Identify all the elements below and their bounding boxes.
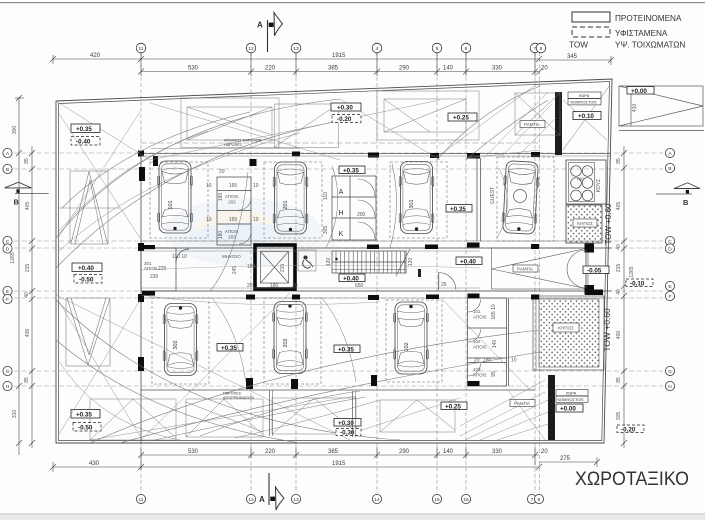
disabled wc box [298,250,316,271]
stub bottom corridor right [371,375,377,386]
vertical grid dashed lines [141,52,540,493]
car 302 [163,304,198,376]
extra diagonal bottom right [508,390,545,440]
svg-text:1265: 1265 [629,266,635,277]
storage block ApOTH 202/203 [217,177,251,245]
svg-text:101: 101 [168,200,174,209]
svg-text:G: G [668,369,672,375]
svg-text:420: 420 [90,53,101,59]
corridor arc lower bay1 [212,298,246,382]
svg-text:200: 200 [357,212,366,218]
elev box +0.30 [331,103,361,111]
svg-text:ΚΟΜΠΟΣΤΟΠ.: ΚΟΜΠΟΣΤΟΠ. [571,100,598,105]
svg-text:ΑΡΙΘΜΟΣ ΠΑΡΟΧΩΝ: ΑΡΙΘΜΟΣ ΠΑΡΟΧΩΝ [224,139,262,143]
parking bay 201 dashed [264,162,322,238]
svg-text:140: 140 [443,449,454,455]
svg-text:+0.25: +0.25 [453,115,469,122]
svg-text:10: 10 [206,217,212,223]
svg-text:1915: 1915 [332,461,346,467]
svg-text:6: 6 [465,46,468,52]
svg-text:20: 20 [541,66,548,72]
car 301 [399,162,434,234]
stub room301 top [142,245,155,249]
svg-text:330: 330 [492,66,503,72]
top grid bubbles [136,43,546,53]
guest bay arc [497,168,508,238]
svg-text:7: 7 [534,46,537,52]
compost boxes top [568,92,601,98]
svg-text:8: 8 [540,46,543,52]
svg-text:10: 10 [511,358,517,364]
neighbour building top right [619,86,704,131]
elev box +0.00 bottom [556,404,583,412]
wall row C top corridor [141,247,612,249]
svg-text:165: 165 [229,183,238,189]
svg-text:+0.35: +0.35 [338,346,354,353]
svg-text:385: 385 [328,66,339,72]
corridor arc lower bay2 [322,298,356,382]
svg-text:95: 95 [491,371,497,377]
elev box +0.25 top [448,113,477,121]
driveway arc bottom 2 [120,352,540,443]
compost boxes bottom [556,390,588,396]
svg-text:ΑΠΟΘ.: ΑΠΟΘ. [473,345,488,350]
driveway arc bottom 6 [150,397,365,441]
svg-text:G: G [6,369,10,375]
parking bay 301 dashed [390,162,447,238]
elev box +0.35 bottom left [71,410,100,419]
svg-text:85: 85 [616,377,622,383]
column stubs row CD [138,243,539,251]
svg-text:11: 11 [139,46,144,52]
svg-text:+0.35: +0.35 [343,167,359,174]
elev box +0.25 bottom [441,402,467,410]
svg-text:245: 245 [232,266,238,275]
left parking rect bottom [66,298,110,366]
svg-text:ΧΩΡΑ: ΧΩΡΑ [566,390,577,395]
extra sweep arc top left a [58,131,208,232]
bottom band hatch rect 3 [272,398,356,434]
svg-text:ΑΠΟΘ.: ΑΠΟΘ. [473,315,488,320]
svg-text:D: D [668,247,672,253]
svg-text:ΑΠΟΘ.: ΑΠΟΘ. [473,373,488,378]
svg-text:20: 20 [219,169,225,175]
svg-text:+0.30: +0.30 [337,105,353,112]
ramp label top [520,121,545,128]
svg-text:H: H [668,384,672,390]
svg-text:ΥΨ. ΤΟΙΧΩΜΑΤΩΝ: ΥΨ. ΤΟΙΧΩΜΑΤΩΝ [615,41,685,50]
svg-text:40: 40 [616,289,622,295]
svg-text:ΚΗΠΟΣ: ΚΗΠΟΣ [577,221,593,226]
stub room301 bottom [142,291,155,296]
svg-text:530: 530 [188,449,199,455]
extra sweep arc mid corridor [141,265,480,270]
svg-text:Α: Α [339,189,344,196]
stairs [332,251,406,273]
svg-text:220: 220 [265,66,276,72]
svg-text:345: 345 [567,54,578,60]
svg-text:+0.00: +0.00 [631,88,647,95]
svg-text:8: 8 [538,497,541,503]
disabled wc symbol [303,256,313,268]
long diagonals existing top [56,84,540,160]
elev box -0.20 dashed [332,115,361,123]
elev box -0.05 [583,266,609,274]
410 dim right top [630,86,632,126]
driveway arc bottom 4 [56,340,300,443]
elev box +0.35 bay302 [217,344,243,352]
svg-text:-0.05: -0.05 [587,267,602,274]
svg-text:180: 180 [247,264,256,270]
svg-text:ΧΩΡΑ: ΧΩΡΑ [579,93,590,98]
svg-text:405: 405 [25,202,31,211]
svg-text:+0.30: +0.30 [338,420,354,427]
svg-text:A: A [259,495,265,504]
svg-text:+0.40: +0.40 [78,265,94,272]
svg-text:85: 85 [24,158,30,164]
driveway arc top 2 [56,120,345,268]
horizontal row dashed lines [14,153,663,386]
svg-text:110: 110 [323,192,329,200]
AHK closets [332,176,376,240]
svg-text:202: 202 [228,200,236,205]
elev box -0.20 dashed bottom right [617,425,644,433]
svg-text:40: 40 [616,244,622,250]
driveway arc top 1 [56,99,340,238]
svg-text:275: 275 [560,456,571,462]
storage door arc 203 [239,232,251,244]
elev box +0.00 top right [627,87,654,95]
stove burners [571,166,593,201]
ramp label bottom [510,400,535,407]
column stubs row A [138,151,540,167]
svg-text:330: 330 [492,449,503,455]
svg-text:ΡΑΜΠΑ: ΡΑΜΠΑ [524,122,540,127]
door arc corridor [439,273,456,290]
svg-text:410: 410 [632,104,638,113]
elev box +0.30 bottom [334,419,361,427]
svg-text:13: 13 [293,497,299,503]
svg-text:TOW: TOW [569,41,588,50]
driveway arc top right [437,86,540,160]
svg-text:-0.20: -0.20 [621,426,636,433]
svg-text:+0.00: +0.00 [560,406,576,413]
car 201 [273,162,308,234]
svg-text:Τ60: Τ60 [576,177,584,182]
svg-text:+0.35: +0.35 [450,206,466,213]
svg-text:+0.35: +0.35 [76,126,92,133]
right grid bubbles [665,148,674,390]
car 202 [273,302,308,374]
svg-text:290: 290 [399,66,410,72]
stove block [566,160,606,204]
svg-text:405: 405 [25,329,31,338]
svg-text:C: C [6,239,10,245]
top edge line [0,2,705,3]
section marker B right [674,183,700,189]
elev box +0.40 left mid [72,263,102,272]
long diagonals existing bottom [56,293,545,440]
wall row A [141,153,610,155]
elev box +0.35 stairs top [339,166,365,174]
elev box +0.40 stairs bottom [339,274,365,282]
column stub guest bottom [467,243,480,248]
svg-text:-0.50: -0.50 [79,277,94,284]
svg-text:302: 302 [173,340,179,349]
legend proposed box [572,12,610,22]
extra sweep arc top left b [58,133,300,252]
bottom strip [0,514,705,520]
hatch rect top right 1 [377,91,479,140]
svg-text:+0.25: +0.25 [445,403,461,410]
parking bay 102 dashed [386,300,442,382]
svg-text:10: 10 [206,183,212,189]
svg-text:215: 215 [616,264,622,273]
svg-text:10: 10 [253,217,259,223]
corridor wall lower line [141,250,480,252]
svg-text:220: 220 [265,449,276,455]
elev box -0.10 dashed right [626,279,653,287]
svg-text:ΚΗΠΟΣ: ΚΗΠΟΣ [558,326,574,331]
extra diagonal storage cross [443,300,530,390]
svg-text:305: 305 [323,226,329,235]
neighbour hatch right of bar [563,85,610,150]
svg-text:+0.40: +0.40 [343,275,359,282]
svg-text:ΠΑΡΟΧΕΣ: ΠΑΡΟΧΕΣ [223,392,242,396]
top dimension row 1 [50,55,614,65]
elev box -0.30 dashed bottom [336,429,361,436]
watermark logo [165,198,340,266]
elev box +0.40 ramp [456,257,482,265]
svg-text:TOW +0.60: TOW +0.60 [604,203,613,245]
svg-text:180: 180 [218,231,224,240]
svg-text:B: B [6,167,9,173]
legend existing box [572,27,610,37]
svg-text:+0.35: +0.35 [221,345,237,352]
wall row E bottom corridor [141,290,612,292]
svg-text:110 10: 110 10 [172,254,187,260]
top dimension row 2 [138,50,543,76]
right dim column [621,146,627,448]
wall double bottom center 2 [352,391,354,437]
svg-text:400: 400 [616,331,622,340]
svg-text:215: 215 [25,264,31,273]
svg-text:C: C [668,239,672,245]
svg-text:300: 300 [12,126,18,135]
svg-text:B: B [14,198,20,207]
top right fan lines [484,92,556,158]
driveway arc bottom 7 [235,400,380,438]
svg-text:120: 120 [408,258,414,267]
bottom band hatch rect 1 [90,399,176,440]
elev box +0.10 [573,112,601,120]
svg-text:E: E [668,284,671,290]
svg-text:40: 40 [24,292,30,298]
parking bay 101 dashed [150,162,208,238]
svg-text:GUEST: GUEST [490,187,496,204]
svg-text:13: 13 [293,46,299,52]
bottom storage rooms 101/102/103 [468,298,509,386]
svg-text:7: 7 [531,497,534,503]
bottom band hatch rect 2 [186,399,263,437]
parking bay 302 dashed [152,298,209,384]
driveway arc bottom 3 [56,300,400,440]
svg-text:165: 165 [229,217,238,223]
svg-text:11: 11 [139,497,144,503]
left dim column outer [15,95,24,455]
svg-text:-0.20: -0.20 [337,116,352,123]
svg-text:F: F [669,294,672,300]
svg-text:103: 103 [473,367,481,372]
svg-text:B: B [668,166,671,172]
svg-text:ΑΠΟΘ.: ΑΠΟΘ. [225,194,240,199]
left column X diagonals [58,112,140,436]
section marker B left [5,182,32,188]
svg-text:Η: Η [338,210,343,217]
svg-text:140: 140 [492,340,498,349]
svg-text:120: 120 [326,258,332,267]
svg-text:102: 102 [473,339,481,344]
svg-text:Κ: Κ [339,231,344,238]
svg-text:ΚΟΥΖ.: ΚΟΥΖ. [596,178,602,193]
corridor arc bay2 [326,166,338,248]
svg-text:H: H [6,384,10,390]
extra arc bottom left corner [58,360,180,440]
svg-text:25: 25 [441,282,447,288]
stub top wall car101 [153,156,158,166]
column stubs row EF [138,294,539,302]
svg-text:ΜΗΧ/ΣΙΟ: ΜΗΧ/ΣΙΟ [222,254,241,259]
svg-text:12: 12 [248,497,254,503]
svg-text:385: 385 [328,449,339,455]
elev box -0.40 dashed [71,137,100,146]
car 102 [394,302,429,374]
svg-text:85: 85 [24,377,30,383]
hatch rect top band [181,98,339,148]
ramp door arcs right [567,250,586,288]
small garden kipos top [566,205,602,243]
parking bay GUEST dashed [497,157,554,241]
svg-text:12: 12 [248,46,254,52]
svg-text:14: 14 [374,497,380,503]
wall row A lower line [141,155,610,157]
svg-text:15: 15 [434,497,440,503]
car GUEST [501,161,540,235]
corridor arc lower entry [141,295,380,305]
boiler room double wall left of guest [476,158,478,241]
column stub bottom corridor [246,378,253,389]
corridor wall upper line [141,287,480,289]
svg-text:ΠΡΟΤΕΙΝΟΜΕΝΑ: ΠΡΟΤΕΙΝΟΜΕΝΑ [615,14,682,23]
svg-text:4: 4 [376,46,379,52]
bottom dimension row 2 [50,462,542,472]
svg-text:ΠΑΡΟΧΕΣ: ΠΑΡΟΧΕΣ [224,143,243,147]
elevator cab X [261,252,289,284]
svg-text:20: 20 [541,449,548,455]
svg-text:16: 16 [463,497,469,503]
svg-text:ΚΟΜΠΟΣΤΟΠ.: ΚΟΜΠΟΣΤΟΠ. [558,397,585,402]
svg-text:165 10: 165 10 [491,304,497,320]
wall double bottom center [269,390,271,436]
elev box -0.50 dashed left mid [74,275,102,284]
elev box -0.50 dashed bottom left [73,423,101,432]
left grid bubbles [3,148,12,390]
svg-text:102: 102 [404,342,410,351]
elev box +0.35 center right [446,205,472,213]
elev box +0.35 bay202 [334,345,360,353]
svg-text:ΧΩΡΟΤΑΞΙΚΟ: ΧΩΡΟΤΑΞΙΚΟ [575,468,689,490]
ramp right triangle lines [492,248,589,289]
svg-text:5: 5 [436,46,439,52]
column stub left wall mid [138,357,144,371]
svg-text:-0.40: -0.40 [76,139,91,146]
svg-text:1915: 1915 [332,53,346,59]
thick wall bar bottom right [548,375,555,440]
svg-text:D: D [6,247,10,253]
svg-text:1265: 1265 [10,252,16,263]
bottom dimension row 1 [138,447,539,470]
storage door arc 202 [239,198,251,210]
elevator shaft [255,245,295,289]
hatch top right 2 [515,93,560,135]
svg-text:+0.10: +0.10 [578,113,594,120]
big garden kipos bottom [533,296,604,370]
svg-text:F: F [6,297,9,303]
corridor arc bay3 [390,164,397,248]
stub storage top [468,294,480,299]
bottom right fan lines [465,400,548,440]
svg-text:A: A [257,21,263,30]
corridor arc bay1 [210,172,248,291]
svg-text:405: 405 [616,202,622,211]
wall left interior x141 [140,153,142,443]
left dim column inner [29,146,35,448]
svg-text:290: 290 [399,449,410,455]
svg-text:ΑΠΟΡΡΙΜΜΑΤΩΝ: ΑΠΟΡΡΙΜΜΑΤΩΝ [223,396,254,400]
svg-text:140: 140 [443,66,454,72]
svg-text:530: 530 [188,66,199,72]
site boundary double line [56,79,612,443]
driveway arc top 3 [62,112,250,208]
driveway arc bottom 1 [90,330,539,443]
bottom grid bubbles [136,494,543,503]
column stub guest top [467,153,480,159]
svg-text:215: 215 [280,264,286,273]
svg-text:310: 310 [12,410,18,419]
svg-text:E: E [6,289,9,295]
svg-text:ΥΦΙΣΤΑΜΕΝΑ: ΥΦΙΣΤΑΜΕΝΑ [615,29,668,38]
svg-text:-0.10: -0.10 [630,280,645,287]
svg-text:TOW +0.60: TOW +0.60 [602,308,612,352]
parking bay 202 dashed [264,298,321,384]
svg-text:+0.35: +0.35 [76,412,92,419]
svg-text:ΑΠΟΘ.: ΑΠΟΘ. [144,266,159,271]
svg-text:430: 430 [89,461,100,467]
column stub row B left [139,167,145,181]
left parking rect top [58,171,120,244]
elev box +0.35 top left [71,124,100,133]
bottom dimension 275 [539,461,597,463]
svg-text:-0.50: -0.50 [78,425,93,432]
svg-text:ΡΑΜΠΑ: ΡΑΜΠΑ [517,266,533,271]
wall bottom of lower bays [141,389,535,391]
svg-text:305: 305 [616,412,622,421]
thick wall bar top right [555,92,562,155]
ramp label mid [513,265,538,272]
svg-text:B: B [683,198,689,207]
svg-text:301: 301 [409,199,415,208]
bottom band hatch rect 4 [380,400,455,432]
